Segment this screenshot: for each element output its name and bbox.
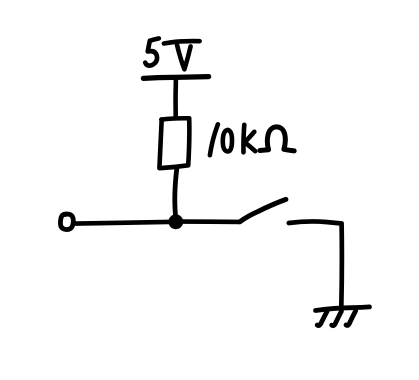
ground bar [316,307,370,311]
ground hatch stroke 3 [346,311,356,326]
label 5V [145,38,199,69]
wire node to switch pole [183,219,240,224]
wire switch contact to corner and down [289,221,342,307]
wire resistor to node [175,169,177,216]
resistor R1 10k body [159,118,189,168]
wire terminal to node [76,222,169,224]
ground hatch stroke 1 [317,311,327,325]
value label 10kOhm [210,124,294,155]
power rail bar [143,77,208,79]
wire rail to resistor [173,79,178,116]
input terminal circle [60,214,73,230]
ground hatch stroke 2 [332,311,342,325]
node junction dot [168,214,183,229]
switch SW1 lever [240,199,286,221]
